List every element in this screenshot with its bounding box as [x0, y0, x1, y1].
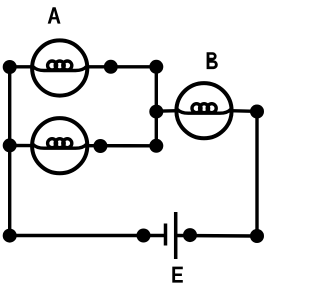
lamp A (circle with filament coil) [32, 40, 87, 95]
junction dot: second row right of lamp 2 [93, 139, 107, 153]
junction dot: top of middle rail [149, 60, 163, 74]
junction dot: battery left terminal [137, 229, 151, 243]
label B (lamp B) [207, 52, 218, 69]
wire: bottom row, left rail to battery negative plate [10, 234, 164, 237]
wire: second row, lamp 2 to middle rail [87, 144, 156, 148]
wire: right rail vertical [255, 111, 258, 236]
wire: middle rail to lamp B [156, 109, 178, 113]
junction dot: top-left corner node [3, 60, 17, 74]
junction dot: left rail at second row [3, 138, 17, 152]
lamp 2 (unlabeled, parallel with A) [32, 118, 87, 173]
battery E: negative (short) plate [164, 224, 168, 246]
wire: second row, left rail to lamp 2 [10, 144, 33, 148]
junction dot: right rail top at lamp B output [250, 105, 264, 119]
junction dot: bottom-left corner node [3, 229, 17, 243]
junction dot: middle rail at lamp B branch [149, 105, 163, 119]
junction dot: bottom of middle rail [149, 139, 163, 153]
label A (lamp A) [48, 7, 61, 23]
wire: left rail from node top-left down to bottom-left [8, 67, 11, 236]
junction dot: top row right of lamp A [104, 60, 118, 74]
wire: middle rail vertical [155, 67, 158, 146]
wire: top row, lamp A to middle rail [87, 65, 156, 68]
junction dot: battery right terminal [183, 228, 197, 242]
junction dot: bottom-right corner node [250, 229, 264, 243]
battery E: positive (long) plate [174, 212, 178, 259]
wire: lamp B to right rail [230, 109, 257, 113]
lamp B (circle with filament coil) [176, 83, 231, 138]
label E (battery) [172, 267, 183, 283]
wire: bottom row, battery positive plate to bottom-right [176, 234, 257, 238]
wire: top row, left rail to lamp A [10, 65, 33, 68]
